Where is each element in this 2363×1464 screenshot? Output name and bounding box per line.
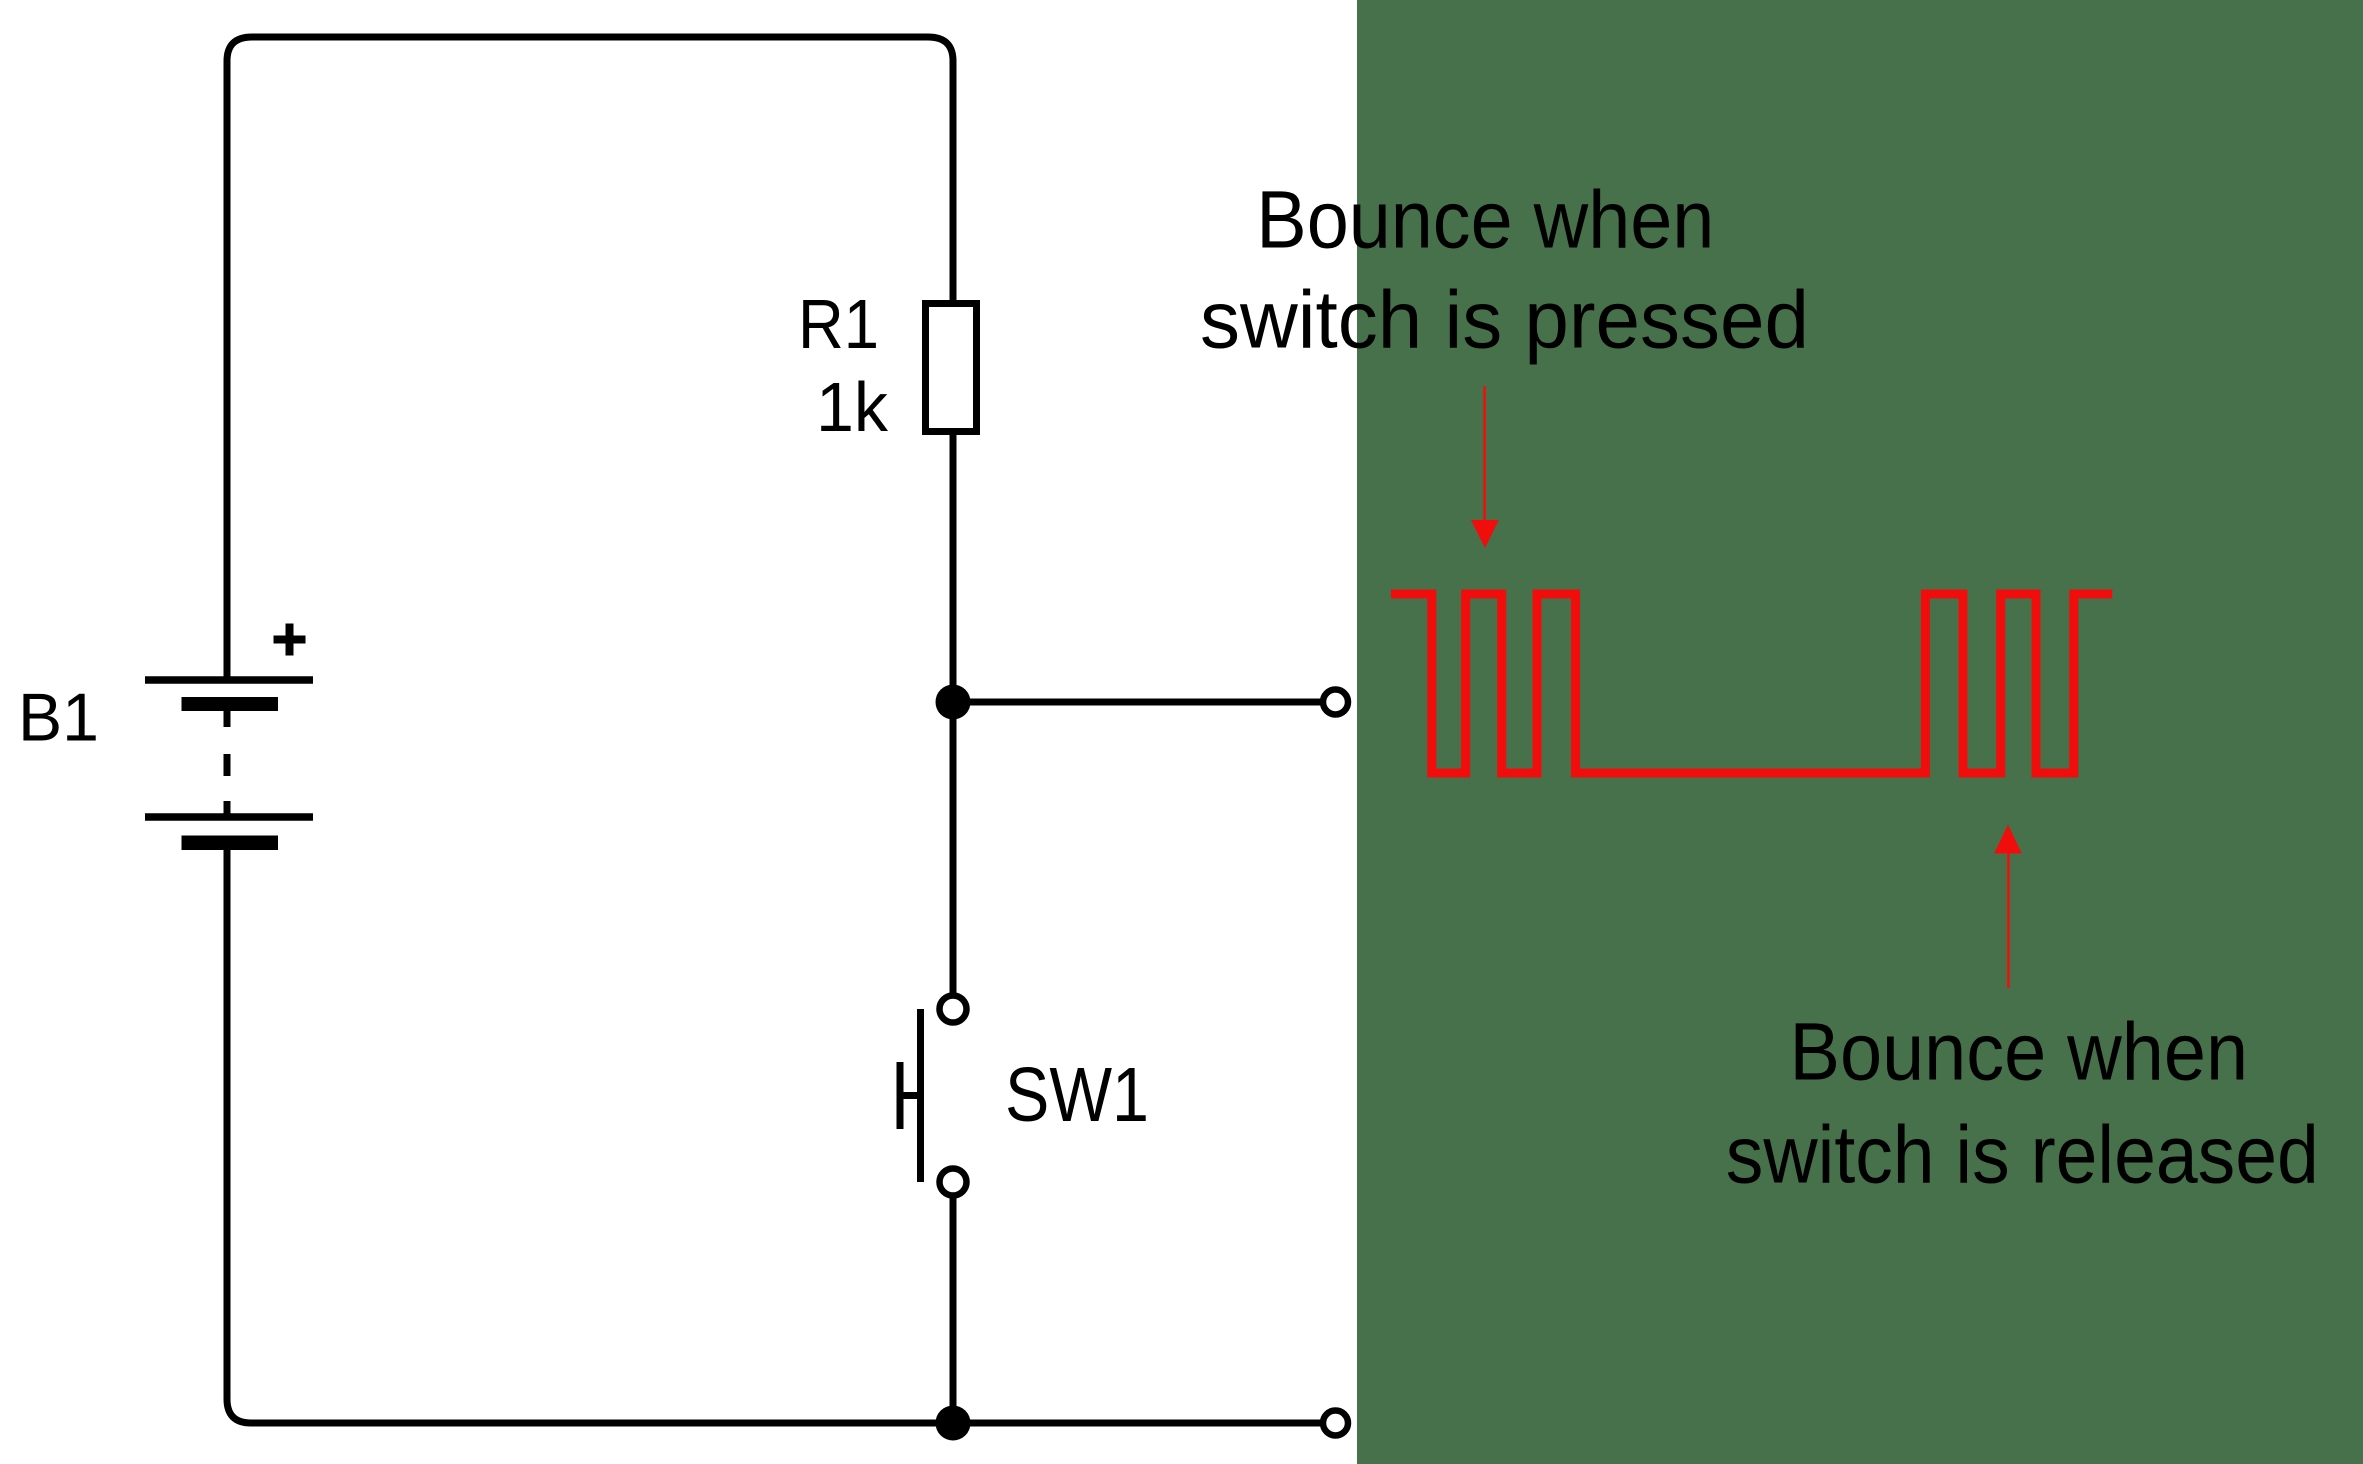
svg-text:switch is pressed: switch is pressed <box>1200 275 1809 366</box>
svg-text:SW1: SW1 <box>1005 1052 1149 1138</box>
svg-text:Bounce when: Bounce when <box>1256 175 1714 266</box>
svg-text:B1: B1 <box>18 680 99 756</box>
svg-text:1k: 1k <box>816 368 889 446</box>
svg-text:Bounce when: Bounce when <box>1790 1007 2249 1098</box>
svg-text:R1: R1 <box>798 285 879 363</box>
svg-text:switch is released: switch is released <box>1726 1109 2319 1200</box>
